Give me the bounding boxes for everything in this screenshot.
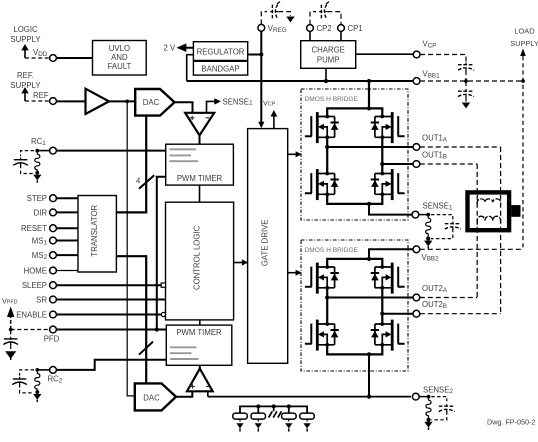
wire DAC2 out to comparator 2 (176, 391, 192, 397)
chassis ground (bus center) (269, 406, 282, 417)
comparator CMP2 (187, 369, 213, 392)
wire dashed cap to node (431, 411, 447, 420)
wire dashed load supply riser (522, 56, 524, 249)
wire control logic to gate drive (arrow) (234, 262, 243, 264)
arrow into gate drive (242, 259, 248, 265)
svg-text:DMOS H BRIDGE: DMOS H BRIDGE (305, 96, 359, 103)
svg-text:SLEEP: SLEEP (22, 281, 47, 290)
svg-text:CP2: CP2 (317, 24, 332, 33)
wire RC1 to node (37, 150, 49, 152)
svg-text:DMOS H BRIDGE: DMOS H BRIDGE (305, 247, 359, 254)
wire dashed VPFD to PFD terminal (11, 329, 50, 331)
wire dashed SENSE1 cap branch (431, 215, 453, 221)
wire VCP pump arrow (273, 116, 275, 129)
wire dashed VPFD cap (10, 330, 12, 336)
transistor Q2 (bridge1 high B) (371, 112, 405, 143)
svg-text:PWM TIMER: PWM TIMER (176, 328, 222, 337)
wire RC2 to PWM timer 2 (57, 360, 167, 370)
wire DIR (57, 211, 79, 213)
wire DAC1 out to comparator (175, 102, 193, 113)
wire dashed VREG bypass (261, 12, 267, 25)
ground arrow (VREG cap) (286, 17, 294, 23)
supply arrow LOAD (520, 49, 526, 57)
terminal SENSE1 (412, 211, 419, 218)
wire dashed RC2 cap branch (20, 370, 34, 376)
block CONTROL LOGIC (166, 202, 234, 320)
terminal OUT1B (413, 161, 420, 168)
wire dashed RS1a lead (239, 419, 241, 424)
wire bus translator to DAC2 (116, 256, 146, 383)
capacitor C-PFD (3, 337, 18, 346)
node OUT2A junction (325, 295, 329, 299)
wire dashed VBB cap2 (465, 81, 467, 88)
wire CP1 stem (340, 31, 342, 40)
svg-text:PFD: PFD (44, 335, 60, 344)
wire VREG rail to gate drive (260, 31, 262, 123)
bus slash 2 (139, 342, 153, 355)
wire PWM1 to control logic (199, 185, 201, 202)
block CHARGE PUMP (301, 41, 356, 69)
svg-text:CONTROL LOGIC: CONTROL LOGIC (193, 225, 202, 290)
node VREG junction (259, 52, 263, 56)
svg-text:2 V: 2 V (164, 44, 177, 53)
wire regulator VBB feed (wrap) (187, 55, 194, 81)
arrow into gate drive top (258, 122, 264, 128)
wire gate drive to bridge1 (arrow) (288, 153, 297, 155)
wire bridge1 left column (326, 137, 328, 173)
wire PFD riser to PWM1 (157, 177, 166, 330)
ground arrow (RC2) (33, 392, 41, 402)
node bridge2 top center (367, 257, 371, 261)
wire comparator minus to SENSE1 label (207, 101, 216, 112)
wire REF riser to DAC2 (127, 101, 135, 396)
wire charge pump to VCP terminal (356, 53, 413, 55)
terminal OUT2B (413, 310, 420, 317)
wire comparator2 minus stub (207, 391, 209, 396)
block PWM TIMER 1 (166, 144, 234, 185)
wire SR (57, 299, 166, 301)
inductor winding 1 (motor top coil) (477, 199, 500, 205)
node RC1 (35, 149, 39, 153)
resistor R-RC1 (35, 151, 40, 173)
wire dashed cap to node (431, 229, 453, 239)
svg-text:CP1: CP1 (348, 24, 363, 33)
node RC2 (35, 368, 39, 372)
wire STEP (57, 197, 79, 199)
wire dashed CP2 to cap (310, 12, 316, 25)
wire SLEEP (57, 284, 162, 286)
svg-text:DIR: DIR (34, 208, 48, 217)
svg-text:AND: AND (111, 53, 128, 62)
wire bridge2 to SENSE2 line (368, 354, 370, 396)
wire R3 stub (288, 406, 290, 413)
terminal VCP (413, 51, 420, 58)
terminal OUT2A (413, 294, 420, 301)
svg-text:DAC: DAC (143, 98, 160, 107)
node RC1 bottom (35, 171, 39, 175)
terminal REF (50, 98, 57, 105)
arrow VCP up (271, 110, 278, 117)
node REF junction (125, 100, 129, 104)
block TRANSLATOR (78, 196, 116, 273)
svg-text:SUPPLY: SUPPLY (10, 35, 41, 44)
transistor Q7 (bridge2 low A) (305, 320, 339, 351)
wire OUT1B (382, 163, 413, 165)
wire dashed VDD supply to terminal (25, 57, 50, 59)
label LOAD SUPPLY (510, 27, 538, 49)
wire RC1 to PWM timer 1 (57, 150, 166, 152)
wire ENABLE (57, 314, 162, 316)
node bridge1 top center (367, 106, 371, 110)
node SENSE1 bottom (426, 237, 430, 241)
ground arrow (VBB cap) (462, 103, 470, 111)
svg-text:STEP: STEP (27, 194, 47, 203)
wire bridge2 left column (326, 288, 328, 324)
capacitor C-CP (319, 2, 329, 19)
node VBB bypass junction (464, 79, 468, 83)
terminal RC1 (50, 147, 57, 154)
arrow 2V output (179, 45, 193, 51)
terminal SENSE2 (412, 393, 419, 400)
box DMOS H BRIDGE 1 (301, 89, 408, 220)
node bus center (272, 404, 276, 408)
ground arrow (SENSE2) (424, 420, 432, 430)
motor M1 body (468, 192, 510, 230)
ground arrow (RS2a) (285, 423, 292, 428)
wire dashed RC1 cap branch (21, 151, 34, 157)
wire dashed OUT1B to motor (420, 163, 477, 165)
node charge pump / VBB junction (324, 79, 328, 83)
wire CP2 stem (309, 31, 311, 40)
motor M1 shaft tab (511, 205, 520, 217)
wire bridge1 bottom rail (327, 194, 382, 204)
supply arrow VDD (21, 44, 28, 58)
transistor Q8 (bridge2 low B) (371, 320, 405, 351)
wire dashed RS1b lead (257, 419, 259, 424)
capacitor C-VBB (458, 89, 474, 98)
pin bubble ENABLE (inverting) (161, 312, 165, 316)
wire control logic to PWM2 (199, 320, 201, 325)
bus slash 1 (139, 175, 154, 189)
label REF. SUPPLY (10, 71, 41, 90)
wire dashed VBB1 to load supply (420, 80, 523, 82)
wire dashed VBB2 to load supply (420, 248, 523, 250)
terminal MS2 (50, 252, 57, 259)
resistor RS2a (282, 413, 297, 419)
wire RESET (57, 227, 79, 229)
terminal RESET (50, 225, 57, 232)
label LOGIC SUPPLY (10, 25, 41, 44)
node bridge2 bottom center (367, 352, 371, 356)
terminal VBB1 (413, 78, 420, 85)
ground arrow (RC1) (33, 173, 41, 183)
svg-text:TRANSLATOR: TRANSLATOR (90, 204, 99, 256)
wire OUT1A (327, 146, 413, 148)
ground arrow (RS2b) (303, 423, 310, 428)
capacitor C-RC2 (12, 377, 27, 386)
wire regulator output to VREG line (248, 54, 262, 56)
svg-text:ENABLE: ENABLE (16, 311, 47, 320)
wire MS2 (57, 254, 79, 256)
svg-text:UVLO: UVLO (109, 44, 130, 53)
arrow into bridge 1 (296, 151, 302, 157)
capacitor C-SENSE1 (445, 222, 461, 231)
node bridge1 bottom center (367, 202, 371, 206)
wire bridge1 feed riser (368, 81, 370, 108)
node OUT1B junction (380, 162, 384, 166)
terminal HOME (50, 267, 57, 274)
transistor Q6 (bridge2 high B) (371, 263, 405, 294)
pin square SLEEP (control logic) (161, 283, 165, 287)
wire bridge1 right column (381, 137, 383, 173)
wire bridge2 right column (381, 288, 383, 324)
wire bridge1 top rail (327, 108, 382, 116)
wire SENSE2 to node (419, 396, 428, 398)
inductor winding 2 (motor bottom coil) (477, 216, 500, 225)
node load supply junction (521, 79, 525, 83)
terminal OUT1A (413, 144, 420, 151)
wire dashed cap to node (20, 384, 34, 393)
wire SENSE2 line (208, 396, 411, 398)
svg-text:PWM TIMER: PWM TIMER (177, 174, 223, 183)
svg-text:PUMP: PUMP (317, 55, 340, 64)
wire bridge2 bottom rail (327, 345, 382, 355)
wire dashed motor left winding riser (476, 164, 478, 298)
svg-text:RESET: RESET (21, 224, 47, 233)
wire RC2 to node (37, 369, 49, 371)
transistor Q1 (bridge1 high A) (305, 112, 339, 143)
block UVLO AND FAULT (93, 41, 147, 76)
wire comparator1 out to PWM timer 1 (199, 135, 201, 144)
wire dashed cap2 to ground (465, 97, 467, 103)
wire R2 stub (257, 406, 259, 413)
wire SENSE1 to node (419, 214, 428, 216)
svg-text:CHARGE: CHARGE (312, 45, 345, 54)
terminal DIR (50, 209, 57, 216)
node OUT2B junction (380, 312, 384, 316)
DAC U1 (135, 89, 174, 116)
node SENSE2 (427, 395, 431, 399)
wire sense resistor bus (240, 406, 307, 413)
terminal SR (50, 296, 57, 303)
block PWM TIMER 2 (166, 325, 232, 365)
wire gate drive to bridge2 (arrow) (288, 272, 297, 274)
svg-text:REF: REF (33, 91, 49, 100)
svg-text:HOME: HOME (24, 267, 47, 276)
wire OUT2A (327, 297, 413, 299)
terminal VREG (258, 24, 265, 31)
wire PFD to PWM timers (57, 329, 167, 331)
supply arrow REF (21, 87, 28, 101)
wire MS1 (57, 240, 79, 242)
svg-text:DAC: DAC (143, 393, 160, 402)
wire dashed cap to ground (10, 344, 12, 352)
node bridge1 feed junction (367, 79, 371, 83)
arrow into bridge 2 (296, 270, 302, 276)
svg-text:LOAD: LOAD (514, 27, 534, 36)
arrow SENSE1 (214, 98, 221, 104)
svg-text:Dwg. FP-050-2: Dwg. FP-050-2 (487, 418, 535, 427)
terminal ENABLE (50, 311, 57, 318)
node SENSE2 bottom (426, 418, 430, 422)
resistor R-SENSE1 (426, 215, 431, 237)
capacitor C-VREG (270, 2, 280, 19)
wire dashed OUT1A to motor (420, 146, 501, 148)
node bus R3 (287, 404, 291, 408)
resistor RS2b (300, 413, 315, 419)
ground arrow (RS1b) (255, 423, 262, 428)
svg-text:BANDGAP: BANDGAP (201, 65, 239, 74)
svg-text:SENSE2: SENSE2 (423, 385, 453, 395)
terminal RC2 (50, 367, 57, 374)
wire REF to buffer (57, 100, 86, 102)
node RC2 bottom (35, 390, 39, 394)
svg-text:REGULATOR: REGULATOR (197, 48, 245, 57)
wire OUT2B (382, 313, 413, 315)
comparator CMP1 (185, 113, 214, 136)
wire HOME (57, 270, 79, 272)
wire dashed cap to ground (278, 12, 290, 16)
ground arrow (SENSE1) (424, 239, 432, 249)
resistor RS1a (233, 413, 248, 419)
wire VBB2 feed (369, 249, 413, 259)
terminal CP2 (307, 25, 314, 32)
block REGULATOR / BANDGAP (193, 42, 247, 75)
wire dashed OUT2A to motor (420, 297, 477, 299)
wire comparator2 out to PWM timer 2 (199, 365, 201, 368)
wire dashed SENSE2 cap branch (431, 397, 447, 402)
wire dashed motor right winding riser (500, 147, 502, 314)
wire bridge2 top rail (327, 259, 382, 267)
wire bridge1 to SENSE1 (369, 204, 412, 215)
svg-text:GATE DRIVE: GATE DRIVE (261, 219, 270, 266)
supply arrow VPFD (7, 307, 14, 330)
svg-text:SUPPLY: SUPPLY (510, 39, 538, 48)
terminal STEP (50, 195, 57, 202)
node SENSE1 (426, 213, 430, 217)
op-amp buffer A1 (86, 89, 110, 114)
box DMOS H BRIDGE 2 (301, 240, 408, 371)
wire dashed cap to CP1 (327, 12, 341, 25)
wire buffer to DAC1 (109, 100, 135, 102)
block GATE DRIVE (248, 129, 288, 364)
terminal SLEEP (50, 282, 57, 289)
svg-text:SENSE1: SENSE1 (223, 97, 253, 106)
svg-text:REF.: REF. (17, 71, 34, 80)
resistor R-RC2 (35, 370, 40, 392)
wire dashed VCP to cap (420, 55, 466, 62)
transistor Q4 (bridge1 low B) (371, 169, 405, 200)
wire charge pump bottom to VBB rail (325, 68, 327, 81)
node VPFD junction (9, 328, 13, 332)
wire dashed cap to node (21, 165, 34, 174)
capacitor C-VCP (458, 63, 474, 72)
wire dashed risers inside motor (477, 195, 500, 228)
terminal VBB2 (413, 246, 420, 253)
capacitor C-RC1 (13, 158, 28, 167)
svg-text:SR: SR (36, 296, 47, 305)
resistor RS1b (251, 413, 266, 419)
transistor Q5 (bridge2 high A) (305, 263, 339, 294)
node OUT1A junction (325, 145, 329, 149)
terminal CP1 (338, 25, 345, 32)
ground arrow (RS1a) (236, 423, 243, 428)
svg-text:SENSE1: SENSE1 (423, 202, 453, 212)
svg-text:FAULT: FAULT (108, 62, 132, 71)
node SENSE2 junction (367, 395, 371, 399)
terminal PFD (50, 326, 57, 333)
terminal MS1 (50, 237, 57, 244)
wire bus translator to DAC1 (116, 116, 146, 213)
terminal VDD (50, 55, 57, 62)
wire VDD to UVLO (57, 57, 93, 59)
svg-text:4: 4 (136, 177, 141, 186)
resistor R-SENSE2 (426, 397, 431, 419)
wire dashed REF supply to terminal (25, 100, 50, 102)
node PFD riser junction (155, 327, 159, 331)
wire VBB1 rail (187, 80, 413, 82)
node bus R2 (256, 404, 260, 408)
wire dashed cap to VBB line (465, 70, 467, 81)
transistor Q3 (bridge1 low A) (305, 169, 339, 200)
wire dashed RS2b lead (306, 419, 308, 424)
capacitor C-SENSE2 (439, 404, 455, 413)
ground arrow (PFD cap) (7, 352, 15, 360)
DAC U2 (135, 383, 176, 410)
wire dashed OUT2B to motor (420, 313, 501, 315)
svg-text:LOGIC: LOGIC (13, 25, 38, 34)
wire dashed RS2a lead (288, 419, 290, 424)
